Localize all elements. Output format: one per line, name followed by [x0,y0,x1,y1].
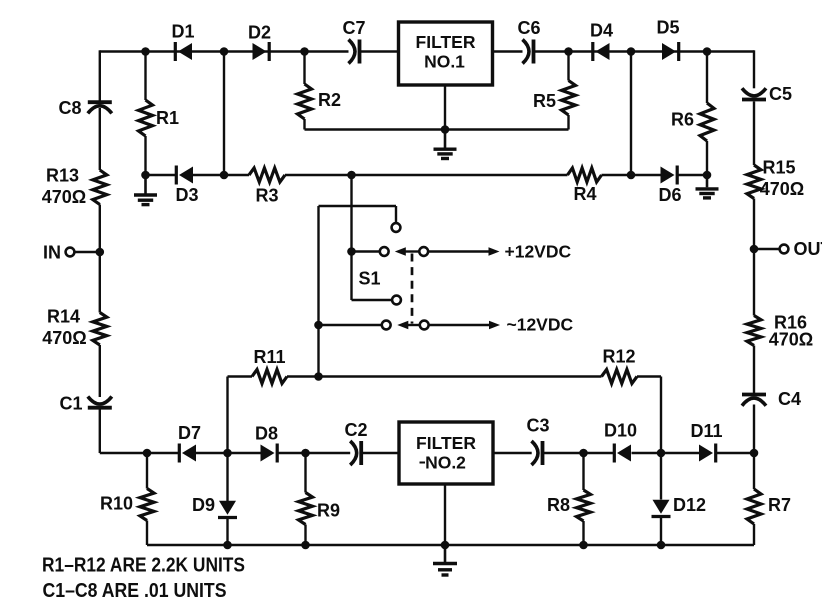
node D7 rail / R9 [301,449,310,458]
node S1 pole2 common junction [314,321,323,330]
node D7 rail / D9 [223,449,232,458]
capacitor C1 [88,397,112,405]
svg-text:C1: C1 [59,394,82,414]
wire D9 branch top [226,453,228,502]
svg-text:R9: R9 [317,501,340,521]
svg-text:D11: D11 [690,421,722,441]
svg-text:R1–R12 ARE 2.2K UNITS: R1–R12 ARE 2.2K UNITS [42,555,245,577]
svg-text:D5: D5 [656,18,679,38]
wire R2 branch bottom [303,119,305,130]
wire column D4-D5 junction down to R4 [630,52,632,176]
wire D7 rail seg7 (D10 to D11) [632,452,700,454]
svg-text:C2: C2 [344,420,367,440]
node D3 rail / D6-R6 ground [703,171,712,180]
wire D7 rail seg4 (C2 to box) [361,452,399,454]
svg-text:D3: D3 [175,185,198,205]
wire S1 net-A down to pole2 throw [350,252,352,301]
resistor R6 [700,103,714,141]
wire right vertical (R16 to C4) [753,346,755,395]
S1 pole1 upper throw contact [392,223,401,232]
capacitor C2 [350,441,357,465]
wire D3 rail seg4 [602,174,661,176]
wire R2 branch top [303,52,305,85]
svg-text:C3: C3 [526,416,549,436]
svg-text:R14: R14 [47,307,80,327]
diode D8 [276,444,279,463]
svg-text:C8: C8 [58,98,81,118]
wire right vertical (top to C5) [753,50,755,88]
svg-text:~12VDC: ~12VDC [507,315,574,335]
diode D6 [676,166,679,185]
wire right vertical (R7 to bottom rail) [753,524,755,545]
S1 pole1 moving contact [419,247,428,256]
resistor R2 [298,84,312,119]
wire D3 rail seg3 (R3 to R4) [285,174,568,176]
resistor R9 [299,493,313,525]
ground under filter1 [444,130,447,148]
wire top rail right segment [534,50,755,52]
wire R1 branch top [144,52,146,101]
wire R11 rail seg1 [228,375,253,377]
capacitor C6 [523,40,530,64]
diode D9 [218,516,237,519]
svg-text:C7: C7 [342,18,365,38]
node top rail / D1-D2 column [220,47,229,56]
node bottom rail / R9 [301,541,310,550]
svg-text:R11: R11 [253,347,285,367]
svg-text:470Ω: 470Ω [42,187,86,207]
svg-text:470Ω: 470Ω [769,330,813,350]
wire right vertical (D7 rail to R7) [753,453,755,489]
resistor R14 470ohm [93,313,107,346]
svg-text:R12: R12 [602,347,635,367]
terminal OUT [780,245,789,254]
wire R11 rail seg2 (R11 to R12) [287,375,602,377]
node D3 rail / column [220,171,229,180]
wire D3 rail seg5 [677,174,707,176]
wire D7 rail seg6 (C3 to D10) [543,452,615,454]
svg-text:+12VDC: +12VDC [505,242,572,262]
S1 pole1 common contact [380,247,389,256]
wire D7 rail seg3 [277,452,350,454]
wire left vertical (R14 to C1) [99,345,101,397]
svg-text:FILTER: FILTER [416,32,476,52]
node bottom rail / D9 [223,541,232,550]
svg-text:R10: R10 [100,494,133,514]
resistor R10 [140,489,154,521]
resistor R15 470ohm [747,165,761,199]
resistor R1 [139,100,153,136]
wire D12 branch top [660,453,662,500]
wire R6 branch top [706,52,708,104]
wire left vertical (R13 to R14) [99,205,101,313]
svg-text:D2: D2 [248,23,271,43]
wire R6 branch bottom [706,141,708,175]
svg-text:R5: R5 [533,91,556,111]
wire left vertical (C8 to R13) [99,108,101,170]
node top rail / R5 [564,47,573,56]
wire top rail C7-to-box segment [360,50,399,52]
diode D4 [591,42,594,61]
wire S1 net-A pole2 throw lead [352,299,393,301]
svg-text:R4: R4 [573,184,596,204]
wire D7 rail seg1 [100,452,180,454]
filter module U1 FILTER NO.1 [399,22,493,85]
svg-text:R15: R15 [762,158,795,178]
resistor R16 470ohm [747,316,761,346]
wire S1 net-B left vertical [317,206,319,377]
resistor R7 [747,489,761,524]
svg-text:R8: R8 [547,495,570,515]
svg-text:R13: R13 [46,166,79,186]
node S1 pole1 common junction [347,247,356,256]
diode D5 [677,42,680,61]
wire S1 net-B top bridge horizontal [319,205,397,207]
S1 pole2 common contact [382,321,391,330]
wire top rail box-to-C6 segment [493,50,523,52]
node D3 rail / R1 ground [141,171,150,180]
svg-text:D4: D4 [590,21,613,41]
wire S1 net-B top bridge down to throw circle [395,206,397,223]
S1 pole1 wiper arm [405,250,420,252]
node D3 rail / R4-D6 column [627,171,636,180]
wire R8 branch top [582,453,584,490]
wire D7 rail seg8 (D11 to right vertical) [716,452,754,454]
node OUT junction [750,245,759,254]
wire R9 branch top [304,453,306,493]
wire D9 branch bottom [226,518,228,546]
resistor R5 [562,81,576,116]
wire D7 rail seg5 (box to C3) [493,452,532,454]
resistor R12 [602,370,638,384]
wire R9 branch bottom [304,525,306,546]
resistor R4 [568,168,602,182]
svg-text:C4: C4 [778,389,801,409]
svg-text:R3: R3 [255,186,278,206]
wire left vertical (C1 to D7 rail) [99,410,101,454]
wire right vertical (R15 to R16) [753,199,755,316]
capacitor C5 [742,88,766,96]
resistor R11 [252,370,287,384]
capacitor C8 [88,100,112,104]
diode D2 [268,42,271,61]
svg-text:R2: R2 [318,90,341,110]
S1 pole2 upper throw contact [392,296,401,305]
ground under D6 [706,175,709,187]
svg-text:NO.1: NO.1 [424,52,465,72]
svg-text:C1–C8 ARE .01 UNITS: C1–C8 ARE .01 UNITS [43,580,227,602]
wire bottom rail [147,544,754,546]
wire S1 net-A vertical from D3 rail [350,175,352,252]
svg-text:D12: D12 [673,495,706,515]
wire D3 rail seg2 [193,174,249,176]
wire OUT lead [754,248,780,250]
wire right vertical (C5 to R15) [753,102,755,166]
wire S1 pole2 common lead [319,324,382,326]
wire R12 right end down to D10-D11 junction [660,377,662,454]
capacitor C3 [532,441,539,465]
ground under filter2 [444,545,447,562]
svg-text:470Ω: 470Ω [760,179,804,199]
wire R10 branch bottom [146,521,148,546]
node bottom rail / R8 [579,541,588,550]
svg-text:FILTER: FILTER [416,433,476,453]
wire IN lead [74,251,100,253]
diode D1 [174,42,177,61]
filter module U2 FILTER NO.2 [399,422,493,484]
svg-text:D1: D1 [171,22,194,42]
diode D10 [613,444,616,463]
node R11 rail / S1 junction [314,372,323,381]
wire R12 rail seg3 [637,375,661,377]
svg-text:NO.2: NO.2 [425,453,466,473]
S1 pole2 wiper arm [407,324,420,326]
node D7 rail / R8 [579,449,588,458]
svg-text:C5: C5 [769,84,792,104]
wire D12 branch bottom [660,517,662,546]
node bottom rail / D12 [657,541,666,550]
wire R5 branch bottom [567,115,569,130]
node filter1 ground junction [441,125,450,134]
wire D7 rail seg2 [196,452,261,454]
capacitor C4 [742,393,766,397]
wire D3 rail seg1 [146,174,177,176]
diode D3 [175,166,178,185]
node top rail / D4-D5 column [627,47,636,56]
wire ground rail under filter1 [305,128,569,130]
node bottom rail / filter2 ground [441,541,450,550]
wire S1 pole1 feed to +12VDC [428,250,489,252]
svg-text:D6: D6 [658,185,681,205]
node top rail / R6 [703,47,712,56]
wire R1 branch bottom [144,136,146,175]
svg-text:D9: D9 [192,495,215,515]
node D7 rail / R10 [143,449,152,458]
wire R5 branch top [567,52,569,81]
S1 gang dashed link [411,254,414,324]
wire S1 pole2 feed to -12VDC [429,324,490,326]
svg-text:R6: R6 [671,110,694,130]
svg-text:R1: R1 [156,108,179,128]
ground under R1/D3 junction [144,175,147,194]
svg-text:S1: S1 [358,269,380,289]
svg-text:OUT: OUT [794,239,822,259]
wire R10 branch top [146,453,148,489]
wire S1 net-A pole1 common lead [352,250,380,252]
wire filter1 output ground stem [444,85,446,130]
capacitor C7 [349,40,356,64]
svg-text:IN: IN [43,243,61,263]
node IN junction [96,248,105,257]
svg-text:D10: D10 [604,421,637,441]
wire right vertical (C4 to D7 rail) [753,405,755,454]
resistor R8 [577,490,591,521]
wire left vertical (top to C8) [99,50,101,101]
node top rail / R2 [300,47,309,56]
svg-text:R7: R7 [768,495,791,515]
node D7 rail / right vertical [750,449,759,458]
svg-text:D7: D7 [178,423,201,443]
wire filter2 ground stem [444,484,446,545]
resistor R13 470ohm [93,170,107,205]
diode D11 [714,444,717,463]
S1 pole2 moving contact [420,321,429,330]
wire R8 branch bottom [582,521,584,545]
svg-text:470Ω: 470Ω [42,328,86,348]
node D3 rail / S1 tap [347,171,356,180]
node D7 rail / D10-D11 [657,449,666,458]
svg-text:D8: D8 [255,424,278,444]
wire R11 rail left end down to D9 junction [226,377,228,454]
svg-text:C6: C6 [517,18,540,38]
diode D12 [652,515,671,518]
node top rail / R1 [141,47,150,56]
diode D7 [178,444,181,463]
resistor R3 [249,168,285,182]
wire top rail left segment [100,50,349,52]
wire column D1-D2 junction down to D3 rail [223,52,225,176]
